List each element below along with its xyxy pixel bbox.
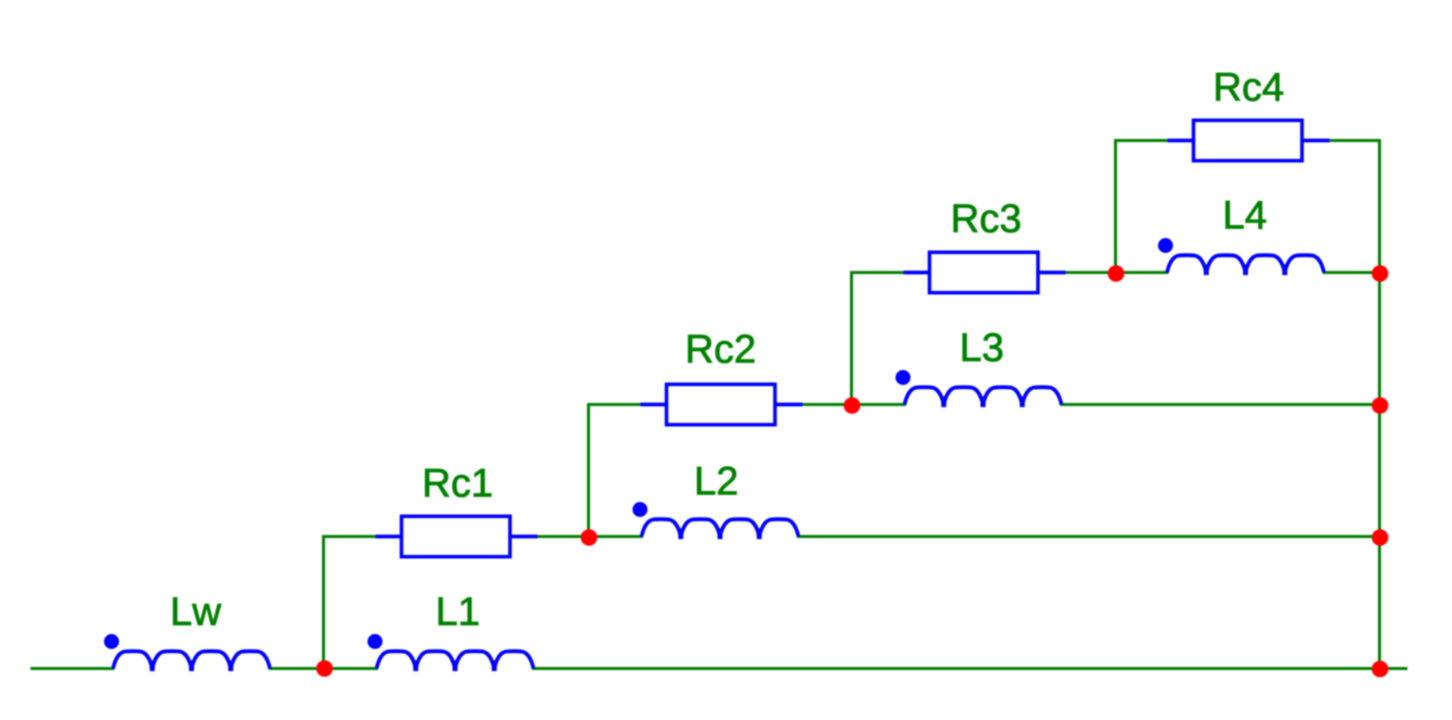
resistor Rc4 [1168,120,1330,160]
svg-text:L3: L3 [960,326,1005,370]
wire: row3 Rc3 to L4 [1066,271,1168,274]
wire: row3 right segment to rail [1324,271,1380,274]
inductor L2 [633,502,799,539]
wire: vertical riser node4 [1114,141,1117,273]
wire: row2 Rc2 to L3 [803,403,905,406]
wire: row1 Rc1 to L2 [538,535,642,538]
junction node 3 [844,397,861,414]
wire: row3 left segment to Rc3 [852,271,905,274]
junction rail row1 [1372,529,1389,546]
wire: row4 left segment to Rc4 [1116,139,1169,142]
resistor Rc2 [641,384,803,424]
inductor Lw [104,634,270,671]
svg-text:Rc1: Rc1 [422,462,493,506]
wire: vertical riser node2 [587,405,590,537]
svg-text:L1: L1 [436,590,481,634]
junction rail row3 [1372,265,1389,282]
wire: right rail vertical [1378,141,1381,669]
svg-text:L4: L4 [1223,194,1268,238]
inductor L4 [1158,238,1324,275]
junction rail row2 [1372,397,1389,414]
inductor L1 [368,634,534,671]
resistor Rc1 [376,516,538,556]
svg-text:Rc4: Rc4 [1213,66,1284,110]
junction node 2 [581,529,598,546]
resistor Rc3 [904,252,1066,292]
svg-text:Rc3: Rc3 [951,197,1022,241]
junction rail bottom [1372,661,1389,678]
wire: row2 right segment to rail [1062,403,1380,406]
wire: vertical riser node1 [322,537,325,669]
junction node 1 [316,660,333,677]
svg-text:Rc2: Rc2 [685,328,756,372]
wire: bottom net left segment [32,667,113,670]
svg-text:L2: L2 [694,460,739,504]
wire: vertical riser node3 [850,273,853,405]
wire: bottom net right segment [534,667,1407,670]
wire: row4 Rc4 to rail [1330,139,1380,142]
wire: bottom net between Lw and L1 [270,667,377,670]
inductor L3 [896,370,1062,407]
wire: row1 right segment to rail [799,535,1380,538]
wire: row1 left segment to Rc1 [324,535,377,538]
svg-text:Lw: Lw [170,590,221,634]
junction node 4 [1108,265,1125,282]
wire: row2 left segment to Rc2 [589,403,642,406]
